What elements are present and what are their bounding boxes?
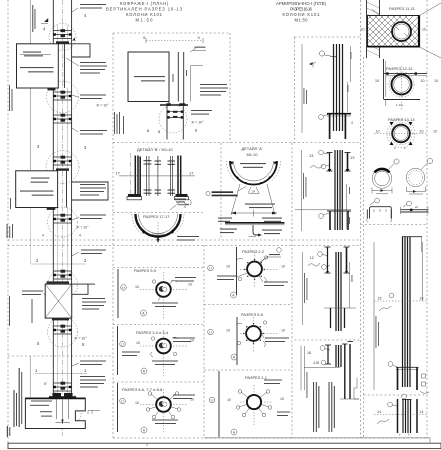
detail V: centerline left — [130, 153, 132, 199]
section 11-11 plan rectangle with crosshatch — [260, 15, 441, 85]
section 6-6 note top right — [173, 395, 195, 400]
left margin rotated note top — [9, 85, 13, 111]
partition border vertical x230 top — [229, 33, 231, 143]
section 3-3 pipe ring — [156, 339, 171, 354]
section 9-9 left rule — [117, 269, 119, 318]
rebar box D: floor line — [304, 366, 340, 368]
rebar box B: main bar cluster — [335, 150, 342, 230]
partition border horizontal y356 left separator — [8, 355, 113, 357]
section 6-6 left rule — [117, 383, 119, 432]
rebar box C: lap bars with caps — [325, 247, 331, 273]
section 12-12 corner wall lines — [384, 59, 428, 100]
section 6-6 tag B — [120, 398, 126, 404]
svg-text:РАЗРЕЗ 17-17: РАЗРЕЗ 17-17 — [143, 214, 170, 219]
section 12-12 bottom wall — [384, 100, 420, 107]
svg-text:КОЛОНИ К101: КОЛОНИ К101 — [283, 12, 321, 17]
storey label 2 with line — [31, 258, 87, 264]
svg-text:10: 10 — [420, 130, 424, 134]
angle label 6 deg — [44, 382, 48, 386]
section 3-3 tag B — [120, 341, 126, 347]
svg-text:15: 15 — [420, 297, 424, 301]
section 2-2 label — [242, 249, 265, 254]
svg-text:М1:50: М1:50 — [136, 18, 154, 23]
svg-text:РАЗРЕЗ 9-9: РАЗРЕЗ 9-9 — [134, 268, 157, 273]
svg-text:14: 14 — [420, 410, 424, 414]
section 13-13 wedge marks — [390, 122, 413, 145]
rebar box C: floor line — [324, 308, 356, 328]
section 9-9 label — [134, 268, 157, 273]
section 11-11 corner leaders — [372, 3, 441, 58]
section 1-1 tag B — [209, 397, 215, 403]
svg-text:17: 17 — [210, 398, 214, 402]
storey label 3 — [37, 144, 87, 150]
svg-text:17: 17 — [116, 171, 121, 176]
drawing 2: labels 8 and A=10 — [147, 128, 198, 135]
drawing 2: right note 2 lines — [191, 110, 212, 115]
svg-text:'А' = 10°: 'А' = 10° — [191, 121, 204, 125]
storey label 5 — [37, 341, 85, 347]
right small box: callouts — [388, 394, 407, 407]
rebar box A: right datum lines — [348, 46, 351, 112]
svg-text:10: 10 — [226, 265, 230, 269]
rebar box D: caps top — [342, 342, 353, 345]
left margin rotated note y300 — [9, 296, 33, 326]
stirrup detail left leader — [388, 159, 399, 170]
section 11-11 wall hatch — [367, 2, 380, 56]
section 11-11 wall strip verticals — [367, 0, 380, 58]
svg-text:10: 10 — [361, 28, 365, 32]
detail A2: quarter mark below hook — [249, 236, 257, 238]
section 6-6 label — [122, 387, 163, 392]
detail A2: hanging hook — [253, 225, 262, 237]
hoop detail right dimension — [407, 187, 426, 195]
svg-text:10: 10 — [421, 79, 425, 83]
svg-text:13: 13 — [309, 153, 314, 158]
partition border vertical x295 center strip — [294, 37, 296, 143]
rebar box C: main bar cluster — [336, 252, 341, 331]
left margin rotated note PM4 — [114, 112, 124, 134]
svg-text:17: 17 — [121, 342, 125, 346]
section 9-9 tag A — [141, 310, 147, 316]
angle label A10 y227 — [42, 226, 89, 238]
note right y215 — [72, 215, 106, 221]
section 17-17: center mark arrow — [152, 222, 164, 243]
section 6-6 tag A — [141, 427, 147, 433]
column inner bar lines — [58, 25, 68, 398]
section 9-9 tag B — [121, 285, 127, 291]
rebar box C: label 12 — [310, 255, 315, 260]
section 13-13 bottom marks — [394, 146, 406, 150]
section 5-5 crosshair — [240, 317, 279, 352]
drawing 2 console inner note — [134, 76, 165, 81]
rebar box A: support bracket — [327, 114, 351, 139]
section 2-2 tag A — [231, 292, 237, 298]
partition border horizontal y438 bottom — [113, 437, 427, 439]
section 17-17: lower half ring — [132, 214, 184, 240]
console plate 2 — [16, 168, 69, 210]
guide line left x31 with rotated note — [30, 0, 35, 397]
right tall box: main bar cluster — [403, 237, 411, 387]
foundation base plate black marks — [49, 393, 76, 398]
section 1-1 label — [245, 375, 268, 380]
svg-text:17: 17 — [122, 286, 126, 290]
rebar box C: signature squiggle — [308, 263, 320, 266]
section 5-5 tag B — [208, 329, 214, 335]
svg-text:РАЗРЕЗ 16-16: РАЗРЕЗ 16-16 — [290, 7, 313, 12]
stirrup detail left ring — [372, 169, 392, 189]
section 12-12 centerline — [396, 66, 403, 110]
right tall box: rotated note — [376, 316, 379, 348]
svg-text:ВЕРТИКАЛЕН РАЗРЕЗ 10-13: ВЕРТИКАЛЕН РАЗРЕЗ 10-13 — [106, 7, 183, 12]
section 5-5 labels 10 — [226, 329, 285, 333]
partition border horizontal y37 center strip top — [295, 36, 361, 38]
detail bubble dashed circle y285 — [48, 270, 78, 300]
svg-text:4: 4 — [79, 234, 81, 238]
section 12-12 label — [386, 66, 413, 71]
drawing 2: vertical dim label 17 — [173, 70, 188, 82]
detail A: bowl ring — [227, 161, 281, 185]
partition border horizontal y370 section 5-5 bottom — [204, 369, 292, 371]
svg-text:10: 10 — [280, 397, 284, 401]
detail V: right base plate — [175, 194, 192, 205]
svg-text:1/4: 1/4 — [252, 190, 256, 194]
partition border vertical x222 detail A — [220, 143, 222, 240]
rebar box D: rotated note column 1 — [313, 382, 319, 432]
drawing 2: slab line with end caps — [160, 103, 188, 106]
rebar box B: lap bar right with end caps — [345, 153, 351, 173]
section 3-3 stirrup curls — [151, 337, 178, 357]
angle label A10 y104 — [96, 104, 109, 108]
section 9-9 stirrup curls — [152, 280, 177, 283]
svg-text:10: 10 — [227, 398, 231, 402]
partition border horizontal y142 — [113, 142, 361, 144]
drawing 2: lower column verticals — [167, 106, 183, 140]
svg-text:10: 10 — [188, 283, 192, 287]
section 3-3 tag A — [141, 368, 147, 374]
svg-text:4: 4 — [351, 121, 353, 125]
section 9-9 note top right — [169, 277, 196, 284]
section 1-1 labels 10 — [227, 397, 284, 402]
section 5-5 right note — [259, 330, 289, 342]
section 3-3 crosshair — [140, 330, 188, 378]
left margin rotated note mid — [7, 198, 14, 238]
section 1-1 note right — [277, 412, 290, 417]
bent bar detail left — [367, 198, 392, 222]
section 13-13 centerline and labels 10 — [374, 130, 437, 134]
svg-text:2х: 2х — [415, 205, 419, 209]
svg-text:10: 10 — [422, 28, 426, 32]
svg-text:РАЗРЕЗ 2-2: РАЗРЕЗ 2-2 — [242, 249, 265, 254]
section 6-6 pipe ring — [156, 397, 171, 412]
partition border vertical x204 — [203, 245, 205, 438]
rebar box A: callout circle with leader — [319, 51, 336, 57]
partition twin dashed separator y240/y245 — [8, 240, 361, 246]
section 2-2 note pks with underline — [260, 254, 281, 262]
top-left black wedge mark — [41, 18, 48, 24]
svg-text:РАЗРЕЗ 12-12: РАЗРЕЗ 12-12 — [386, 66, 413, 71]
right small box: side bars — [398, 399, 418, 433]
rebar box B: support bracket — [327, 211, 351, 230]
detail A2: plate line — [225, 223, 285, 225]
rebar box A: bracket callout — [319, 115, 328, 120]
section 9-9 labels 10 — [135, 283, 192, 290]
console 1 inner note — [20, 52, 54, 73]
note right of console 1 — [66, 58, 107, 74]
rebar box B: rotated note — [303, 173, 306, 199]
rebar box D: bottom line — [340, 398, 359, 400]
detail bubble dashed circle y167 — [46, 151, 79, 184]
note right y361 — [72, 361, 106, 367]
svg-text:'А' = 10°: 'А' = 10° — [76, 226, 89, 230]
section 2-2 ring — [247, 262, 262, 277]
svg-text:15: 15 — [378, 297, 382, 301]
note right y131 — [72, 128, 107, 135]
svg-text:10: 10 — [433, 130, 437, 134]
rebar box A: label 4 — [351, 121, 353, 125]
partition border vertical x360 right strip — [361, 0, 364, 438]
section 9-9 pipe ring — [156, 282, 171, 297]
svg-text:17: 17 — [209, 266, 213, 270]
console 2 inner note — [20, 178, 54, 196]
section 17-17: label — [143, 214, 170, 219]
section 6-6 crosshair — [140, 389, 188, 433]
stirrup detail left dimension — [372, 188, 392, 194]
svg-text:РАЗРЕЗ 3-3 и 4-4: РАЗРЕЗ 3-3 и 4-4 — [136, 330, 169, 335]
section 1-1 left rule — [218, 371, 220, 437]
section 13-13 label — [388, 117, 415, 122]
column K101 edge lines — [53, 0, 71, 398]
svg-text:10: 10 — [434, 79, 438, 83]
section 13-13 pipe ring with dashed hoops — [387, 120, 415, 148]
slab step right of console 1 — [58, 44, 90, 57]
rebar box B: labels 13 — [309, 153, 355, 160]
detail bubble dashed circle y37 — [49, 24, 76, 51]
partition border horizontal y395 right strip — [364, 394, 428, 396]
black angle mark right of column y38 — [72, 38, 75, 41]
section 2-2 upper circled mark — [261, 248, 281, 262]
section 11-11 labels 10 — [361, 28, 427, 32]
detail A: left lower note — [218, 218, 232, 222]
section 2-2 left note — [217, 273, 247, 280]
section 11-11 small marks in circle — [396, 27, 407, 36]
rebar box D: main bar cluster — [336, 345, 341, 367]
svg-text:РАЗРЕЗ 1-1: РАЗРЕЗ 1-1 — [245, 375, 268, 380]
svg-text:10: 10 — [376, 130, 380, 134]
svg-text:4: 4 — [42, 234, 44, 238]
detail A: label — [241, 146, 262, 157]
drawing 2: top right underlined note — [190, 47, 206, 52]
svg-text:13: 13 — [350, 155, 355, 160]
partition border vertical x113 — [112, 33, 114, 438]
partition border horizontal y225 right strip — [361, 224, 428, 226]
drawing 2: dimension line y40 — [143, 35, 203, 43]
svg-text:10: 10 — [135, 401, 139, 405]
rebar box B: right datum line — [345, 184, 347, 229]
detail bubble dashed circle y410 — [44, 391, 82, 429]
partition border horizontal y304 section 2-2 bottom — [204, 304, 292, 306]
column K101 centerline — [62, 0, 64, 436]
svg-text:М1:10: М1:10 — [246, 152, 258, 157]
detail V: left base plate — [127, 194, 142, 200]
section 1-1 crosshair — [240, 385, 272, 425]
svg-text:4.25: 4.25 — [313, 361, 319, 365]
section 3-3 note top right — [173, 338, 195, 343]
section 9-9 note below — [152, 296, 178, 307]
section 3-3 left rule — [117, 326, 119, 375]
title header right: ARMIROVACHEN PLAN RAZREZ 16-16 — [276, 1, 327, 23]
right tall box: signature squiggle — [379, 306, 391, 311]
detail A2: left bottom note — [220, 229, 237, 234]
svg-text:17: 17 — [189, 171, 194, 176]
drawing 2: console plate — [128, 52, 169, 102]
section 1-1 spokes — [239, 392, 269, 414]
partition border horizontal y340 center strip — [295, 339, 361, 341]
right bottom band step — [429, 438, 431, 443]
detail V: horizontal datum line with 17 labels — [116, 171, 196, 176]
section 1-1 ring — [247, 395, 261, 409]
section 5-5 tag A — [231, 354, 237, 360]
angle label A10 y337 — [74, 337, 87, 341]
svg-text:10: 10 — [135, 285, 139, 289]
right tall box: left datum line — [373, 242, 375, 390]
rebar box A: rotated note — [304, 88, 307, 104]
rebar box D: step outline — [354, 378, 359, 399]
section 9-9 crosshair — [140, 272, 188, 320]
svg-text:М1:50: М1:50 — [295, 18, 309, 23]
svg-text:10: 10 — [375, 79, 379, 83]
right tall box: support bracket — [396, 367, 419, 390]
page frame: left margin dashed border — [7, 0, 9, 443]
rebar box B: left datum line — [301, 150, 303, 231]
detail bubble dashed circle y222 — [48, 207, 78, 237]
rebar box A: left datum line — [301, 44, 303, 133]
svg-text:'А' = 10°: 'А' = 10° — [74, 337, 87, 341]
detail A: left bold note with circled mark — [206, 187, 246, 197]
svg-text:КОЛОНИ К101: КОЛОНИ К101 — [126, 12, 163, 17]
section 3-3 label — [136, 330, 169, 335]
svg-text:РАЗРЕЗ 5-5: РАЗРЕЗ 5-5 — [241, 312, 264, 317]
section 2-2 stud dots — [244, 259, 265, 280]
rebar box B: signature squiggle — [310, 165, 323, 168]
section 2-2 labels 10 — [226, 265, 285, 269]
detail bubble dashed circle y97 — [47, 81, 79, 113]
section 12-12 labels 10 — [375, 79, 438, 83]
right small box: top cap — [402, 399, 412, 401]
section 2-2 right note — [259, 276, 288, 286]
svg-text:10: 10 — [226, 329, 230, 333]
detail V: left bar group — [135, 156, 140, 197]
rebar box D: callout and label 18 — [307, 346, 330, 355]
storey label 1 with line — [35, 368, 87, 374]
console plate 3 — [45, 281, 71, 320]
right small box: dashed level with 14 labels — [374, 410, 427, 415]
section 2-2 stirrup curls — [237, 256, 268, 283]
svg-text:РАЗРЕЗ 11-11: РАЗРЕЗ 11-11 — [389, 6, 416, 11]
section 3-3 left note — [122, 352, 140, 357]
svg-text:КОФРАЖЕ-І (ПЛАН): КОФРАЖЕ-І (ПЛАН) — [120, 1, 169, 6]
console plate 1 — [17, 41, 70, 90]
drawing 2: dashed detail circle — [159, 105, 187, 133]
bent bar detail right — [401, 201, 429, 214]
section 1-1 tag A — [231, 429, 237, 435]
hoop detail right leader — [421, 158, 433, 169]
section 1-1 note top right — [264, 380, 282, 385]
partition border horizontal y213 section 17-17 box top — [113, 212, 204, 214]
svg-text:ДЕТАЙЛ 'В' / М1:10: ДЕТАЙЛ 'В' / М1:10 — [137, 147, 173, 152]
right small box: signature squiggle — [377, 419, 389, 424]
rebar box D: long bars down — [345, 344, 350, 399]
section 5-5 label — [241, 312, 264, 317]
section 2-2 tag B — [208, 265, 214, 271]
rebar box D: left datum lines — [301, 346, 305, 390]
rebar box D: rotated note small — [306, 372, 309, 398]
detail A: leaders to side notes — [231, 184, 275, 215]
small step mark right of foundation — [88, 411, 100, 415]
svg-text:10: 10 — [281, 329, 285, 333]
detail A2: right bottom note — [262, 230, 282, 235]
detail V: center bar with ticks — [157, 156, 159, 196]
rebar box C: right datum — [349, 262, 351, 308]
svg-text:4: 4 — [184, 205, 186, 209]
svg-text:12: 12 — [310, 255, 315, 260]
drawing 2: column verticals — [169, 52, 203, 105]
note top right leader — [72, 4, 106, 12]
section 11-11 label — [389, 6, 416, 11]
rebar box B: bracket callout — [319, 213, 329, 218]
right small box: bottom marks — [399, 432, 410, 436]
section 12-12 anchor squares — [386, 72, 417, 74]
note right y250 — [72, 250, 106, 257]
note right of console 3 — [72, 284, 106, 309]
section 5-5 ring — [246, 326, 261, 341]
right tall box: dashed level line with 15 labels — [374, 293, 427, 301]
partition border horizontal y382 section 3-3 bottom — [113, 381, 204, 383]
rebar box B: floor line — [295, 209, 351, 211]
rebar box C: left datum line — [302, 252, 304, 325]
rebar box A: main bar cluster — [334, 44, 343, 131]
svg-text:14: 14 — [377, 410, 381, 414]
svg-text:'А' = 10°: 'А' = 10° — [96, 104, 109, 108]
svg-text:17: 17 — [121, 399, 125, 403]
rebar box C: callout circles — [318, 252, 330, 270]
foundation inner note — [30, 401, 52, 417]
detail A2: note above dimension — [245, 204, 275, 209]
detail V: fourth bar group — [170, 156, 172, 196]
section 2-2 crosshair — [240, 252, 279, 288]
right small box: inner bars — [403, 399, 411, 433]
svg-text:1 1/4: 1 1/4 — [396, 103, 403, 107]
svg-text:10: 10 — [281, 265, 285, 269]
section 6-6 spokes — [149, 394, 178, 416]
foundation block — [25, 398, 85, 428]
left margin rotated note PM1 bottom — [7, 368, 22, 437]
right tall box: right small stirrup symbols — [420, 374, 429, 393]
partition border vertical x427 far right — [426, 0, 428, 438]
section 3-3 labels 10 — [136, 339, 194, 346]
right tall box: right datum — [422, 242, 424, 301]
rebar box B: lap bar left with end caps — [327, 153, 333, 173]
rebar box A: flag mark — [309, 62, 316, 68]
detail A2: dimension line with arrows — [231, 210, 277, 217]
rebar box C: rotated note — [304, 273, 307, 303]
storey label 4 — [43, 13, 87, 32]
section 11-11 pipe ring — [392, 22, 411, 41]
foundation anchor marks — [55, 398, 70, 424]
section 6-6 note below — [152, 420, 178, 425]
svg-text:17: 17 — [209, 330, 213, 334]
svg-text:РАЗРЕЗ 6-6, 7-7 и 8-8: РАЗРЕЗ 6-6, 7-7 и 8-8 — [122, 387, 163, 392]
rebar box B: callout circles — [319, 150, 329, 169]
